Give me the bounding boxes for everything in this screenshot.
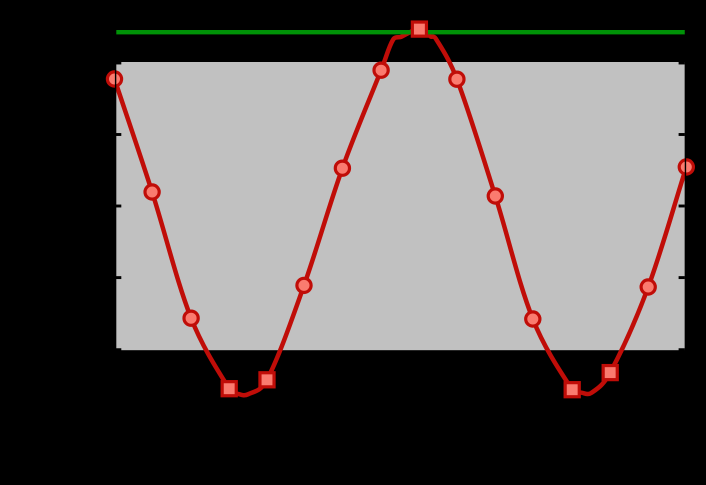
left axis ticks	[115, 62, 121, 352]
green threshold line (axhline)	[116, 30, 685, 34]
left spine	[115, 20, 116, 410]
square markers (out-of-band points)	[222, 22, 617, 397]
right axis ticks	[679, 62, 685, 352]
gray band (axhspan)	[115, 62, 685, 350]
circle markers	[107, 63, 693, 326]
red data curve	[115, 29, 687, 395]
right spine	[685, 20, 686, 410]
